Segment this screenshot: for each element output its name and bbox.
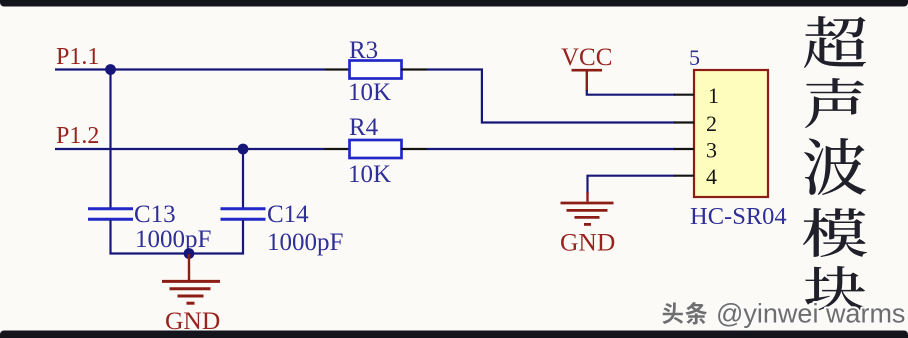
svg-text:3: 3 — [706, 138, 717, 163]
svg-text:2: 2 — [706, 111, 717, 136]
svg-text:10K: 10K — [348, 79, 391, 106]
resistor R4 body — [350, 140, 402, 158]
title char 声 — [805, 78, 864, 128]
title char 模 — [803, 208, 867, 257]
ground (right) — [561, 192, 614, 224]
svg-text:P1.2: P1.2 — [56, 123, 99, 149]
resistor R4 left pin lead — [324, 148, 350, 150]
svg-text:R4: R4 — [349, 114, 379, 141]
wire pin 4 to ground — [588, 176, 676, 194]
capacitor C13 bottom plate — [88, 218, 133, 221]
junction dot at ground node — [184, 248, 195, 259]
resistor R3 left pin lead — [325, 68, 350, 70]
svg-text:HC-SR04: HC-SR04 — [690, 203, 787, 230]
title char 波 — [804, 138, 866, 195]
svg-text:@yinwei warms: @yinwei warms — [716, 299, 905, 329]
title char 超 — [804, 16, 866, 68]
watermark 头条 @yinwei warms — [662, 302, 707, 325]
junction dot at P1.1 — [105, 64, 116, 75]
svg-text:R3: R3 — [349, 37, 378, 64]
resistor R4 right pin lead — [401, 148, 427, 150]
svg-text:5: 5 — [689, 45, 700, 70]
IC U1 HC-SR04 body — [694, 70, 768, 197]
junction dot at P1.2 — [238, 144, 249, 155]
capacitor C13 top plate — [88, 207, 133, 210]
svg-text:C14: C14 — [267, 201, 309, 228]
wire vertical from P1.2 junction to C14 — [242, 149, 244, 208]
svg-text:P1.1: P1.1 — [56, 44, 99, 70]
wire C14 bottom — [242, 220, 244, 255]
pin 4 stub — [674, 175, 694, 177]
wire VCC to pin 1 — [587, 90, 675, 95]
title char 块 — [805, 266, 865, 311]
ground (left) — [162, 254, 220, 303]
svg-text:VCC: VCC — [561, 44, 612, 71]
bottom border bar — [0, 331, 908, 338]
wire C13 bottom — [109, 220, 111, 255]
pin 1 stub — [674, 94, 694, 96]
svg-text:4: 4 — [706, 164, 717, 189]
resistor R3 body — [350, 61, 402, 79]
wire vertical from P1.1 junction to C13 — [109, 70, 111, 209]
pin 2 stub — [674, 121, 694, 123]
wire P1.1 horizontal — [55, 68, 325, 70]
top border bar — [0, 0, 908, 7]
capacitor C14 top plate — [221, 207, 266, 210]
wire R3 to pin 2 (corner) — [427, 70, 675, 123]
svg-text:10K: 10K — [348, 161, 391, 188]
wire R4 to pin 3 — [427, 148, 675, 150]
capacitor C14 bottom plate — [221, 218, 266, 221]
power VCC symbol — [572, 70, 603, 91]
wire P1.2 horizontal — [55, 148, 324, 150]
svg-text:1000pF: 1000pF — [135, 226, 211, 253]
resistor R3 right pin lead — [401, 68, 427, 70]
svg-text:GND: GND — [560, 228, 615, 257]
pin 3 stub — [674, 148, 694, 150]
svg-text:C13: C13 — [134, 201, 176, 228]
svg-text:1000pF: 1000pF — [267, 229, 343, 256]
svg-text:1: 1 — [708, 83, 719, 108]
wire bottom joining C13 C14 — [110, 252, 245, 254]
